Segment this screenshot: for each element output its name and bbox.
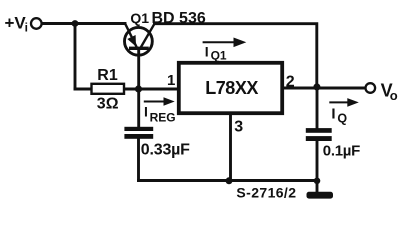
svg-text:I: I <box>205 44 209 60</box>
svg-text:BD 536: BD 536 <box>152 10 206 27</box>
svg-text:Q1: Q1 <box>130 10 149 26</box>
svg-text:L78XX: L78XX <box>205 78 258 98</box>
svg-text:S-2716/2: S-2716/2 <box>236 185 296 201</box>
svg-text:I: I <box>144 104 148 120</box>
svg-text:2: 2 <box>286 74 295 91</box>
svg-text:+V: +V <box>5 14 27 33</box>
svg-text:Q: Q <box>337 112 347 126</box>
svg-text:o: o <box>390 88 398 103</box>
svg-text:3Ω: 3Ω <box>97 95 119 112</box>
svg-text:0.1µF: 0.1µF <box>323 142 360 159</box>
svg-text:1: 1 <box>167 72 175 89</box>
svg-text:i: i <box>25 21 28 35</box>
svg-text:Q1: Q1 <box>211 49 227 63</box>
svg-text:0.33µF: 0.33µF <box>141 141 190 158</box>
svg-text:I: I <box>331 105 335 122</box>
svg-text:REG: REG <box>150 111 176 125</box>
svg-text:R1: R1 <box>97 67 118 84</box>
svg-text:3: 3 <box>234 119 243 136</box>
